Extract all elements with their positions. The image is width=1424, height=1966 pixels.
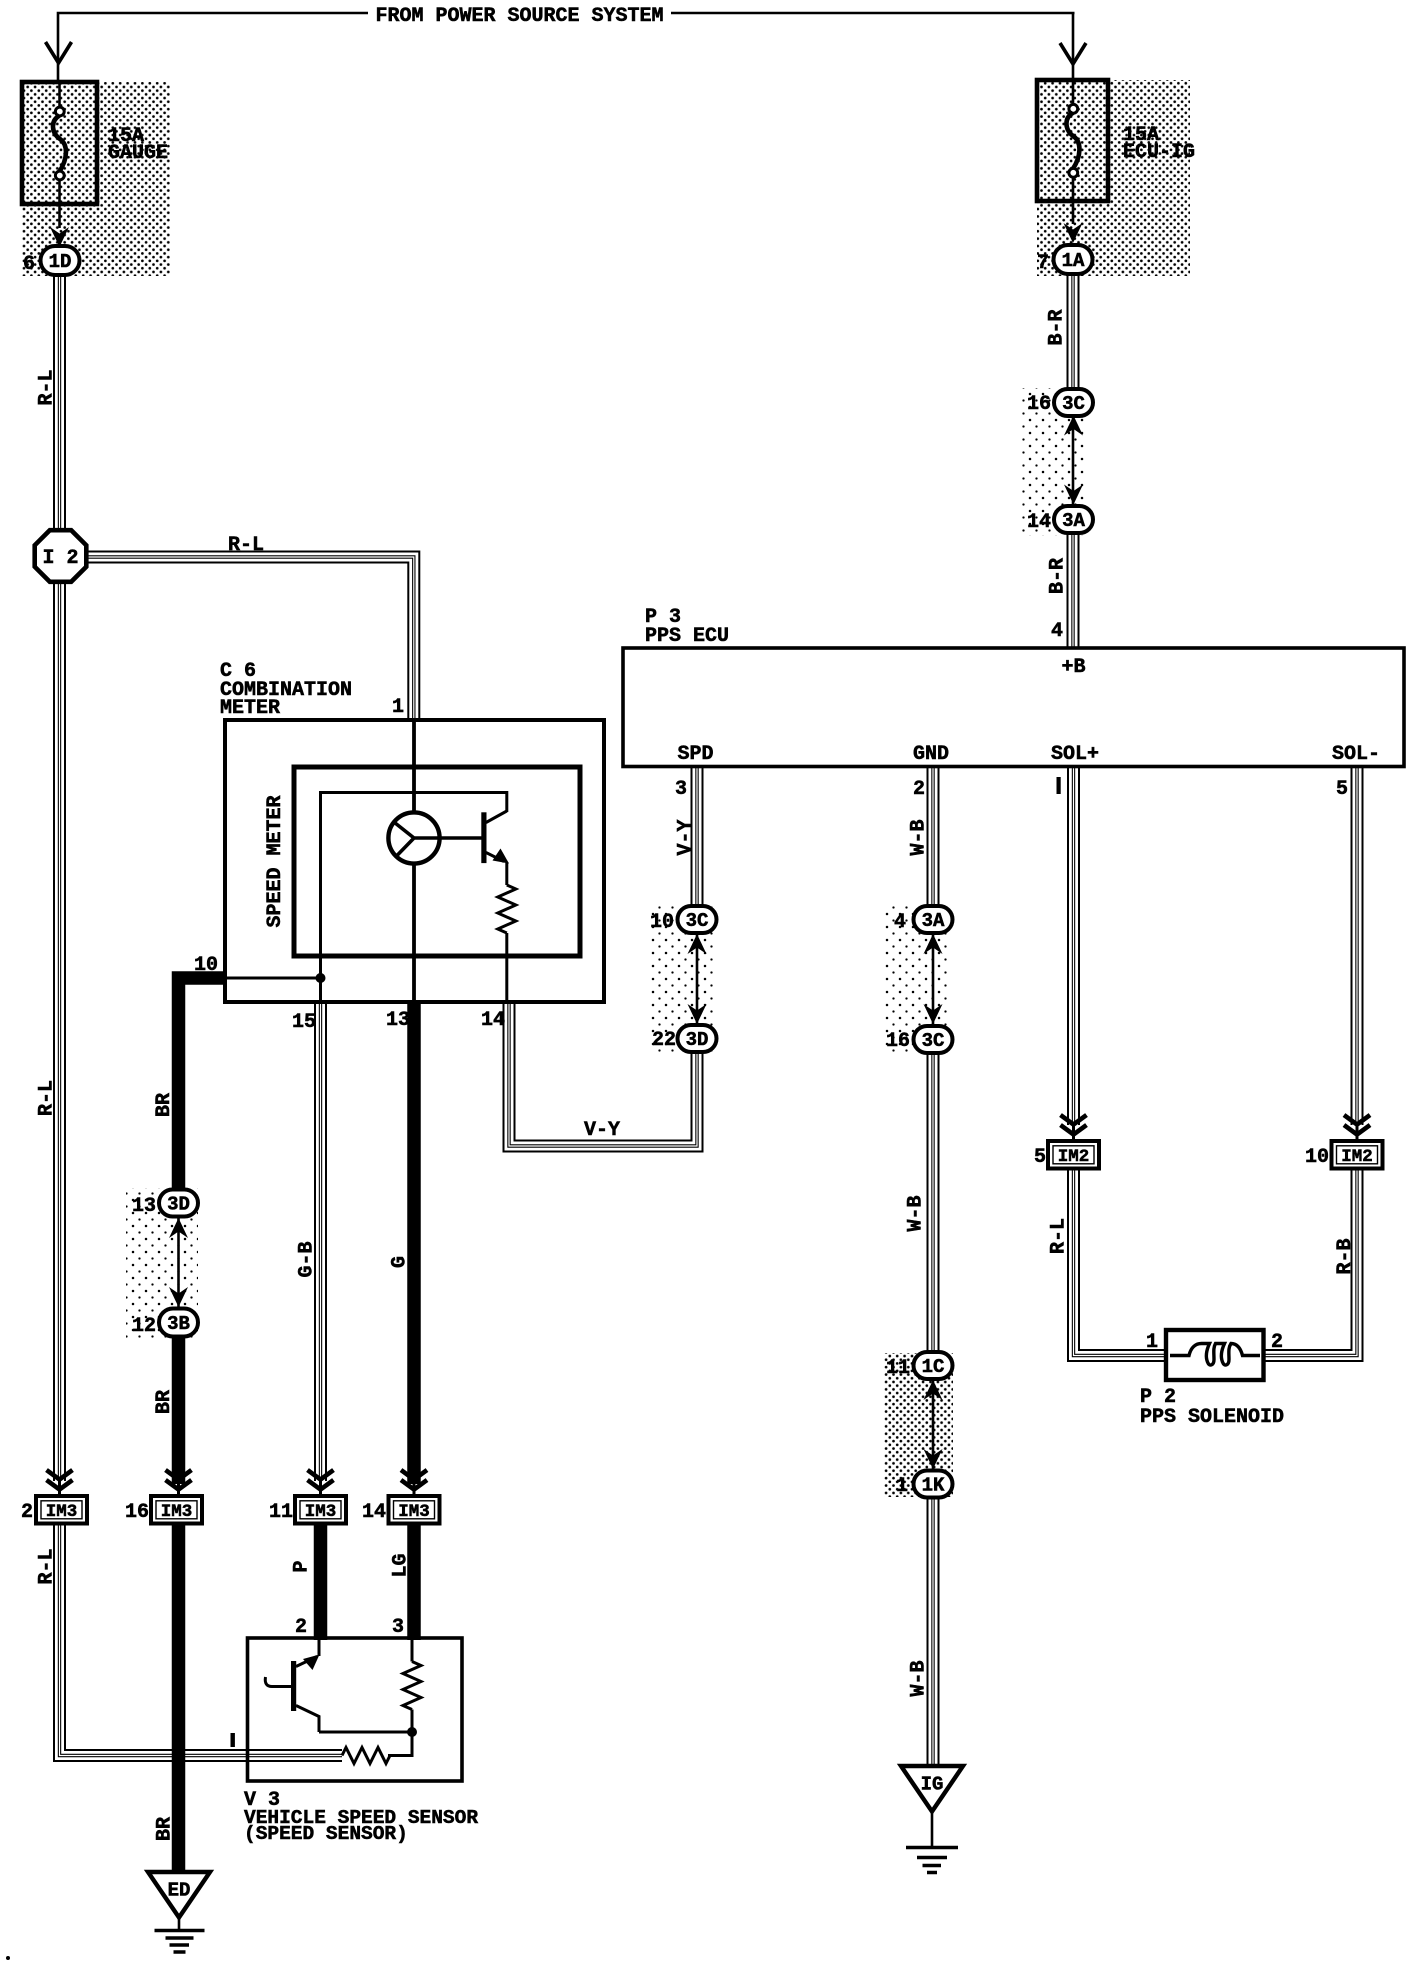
svg-text:3: 3 — [392, 1616, 404, 1639]
connector 3C (GND) — [914, 1026, 953, 1053]
junction dot sensor — [407, 1727, 417, 1737]
connector 3A (GND) — [914, 906, 953, 933]
svg-text:13: 13 — [386, 1009, 410, 1032]
svg-text:W-B: W-B — [908, 819, 931, 855]
connector IM3 pin 11 — [295, 1496, 346, 1524]
svg-text:7: 7 — [1037, 252, 1049, 275]
svg-text:IM3: IM3 — [161, 1502, 193, 1522]
wire P IM3 to speed sensor pin 2 — [314, 1521, 328, 1640]
wire W-B connector 3C to 1C — [927, 1051, 940, 1354]
svg-text:4: 4 — [894, 911, 906, 934]
svg-text:15: 15 — [292, 1011, 316, 1034]
svg-text:IM3: IM3 — [305, 1502, 337, 1522]
svg-text:13: 13 — [132, 1195, 156, 1218]
chevron arrow R-L at IM2 5 — [1061, 1115, 1087, 1125]
wire V-Y connector 3D to meter pin 14 — [509, 1003, 697, 1146]
svg-text:6: 6 — [23, 253, 35, 276]
svg-text:14: 14 — [481, 1009, 505, 1032]
svg-text:ECU-IG: ECU-IG — [1123, 141, 1195, 164]
connector 3D (BR) — [159, 1190, 198, 1217]
svg-text:IM2: IM2 — [1341, 1147, 1373, 1167]
gauge feed line pin 1 — [412, 720, 416, 813]
wire BR connector 3B to IM3 — [172, 1336, 186, 1484]
chevron arrow R-L at IM3 2 — [47, 1470, 73, 1480]
svg-text:V-Y: V-Y — [584, 1119, 620, 1142]
wire R-L IM2 to PPS solenoid pin 1 — [1074, 1168, 1169, 1356]
svg-text:R-L: R-L — [1048, 1218, 1071, 1254]
svg-text:IG: IG — [921, 1774, 944, 1796]
ground ED — [148, 1872, 210, 1918]
arrow up into 3C spd — [688, 934, 707, 954]
svg-text:16: 16 — [1027, 393, 1051, 416]
wire R-L ECU SOL+ down to IM2 — [1067, 766, 1080, 1125]
transistor Q2 in speed sensor — [291, 1661, 296, 1711]
svg-text:22: 22 — [652, 1029, 676, 1052]
arrow into connector 1D — [50, 227, 69, 247]
fuse 15A ECU-IG halftone block — [1037, 80, 1190, 276]
vehicle speed sensor box V3 — [248, 1638, 463, 1781]
wire R-L IM3 to speed sensor pin 1 — [60, 1521, 343, 1756]
wire R-L junction I2 down to IM3 — [53, 581, 66, 1481]
svg-text:R-B: R-B — [1334, 1238, 1357, 1274]
resistor R1 in speed meter — [505, 862, 508, 885]
fuse ECU-IG element — [1072, 80, 1075, 105]
arrow down into 3B br — [169, 1287, 188, 1307]
PPS ECU box P3 — [623, 648, 1404, 767]
svg-text:3A: 3A — [1062, 510, 1085, 532]
arrow down into 1K — [924, 1449, 943, 1469]
svg-text:+B: +B — [1061, 656, 1085, 679]
speedometer gauge symbol — [388, 812, 439, 863]
svg-text:10: 10 — [650, 911, 674, 934]
svg-text:2: 2 — [21, 1501, 33, 1524]
svg-text:3C: 3C — [922, 1030, 945, 1052]
svg-text:R-L: R-L — [36, 1080, 59, 1116]
wire W-B ECU GND to connector 3A — [927, 766, 940, 908]
svg-text:I 2: I 2 — [42, 547, 78, 570]
connector 1D — [41, 246, 80, 275]
wire: FROM POWER SOURCE SYSTEM feed line — [58, 12, 1075, 82]
arrow into fuse GAUGE — [46, 42, 72, 63]
svg-text:SOL-: SOL- — [1332, 743, 1380, 766]
speed meter box — [294, 767, 580, 956]
single lead into IM3 pin2 — [58, 1481, 61, 1497]
connector 3C (B-R) — [1054, 389, 1093, 416]
arrow up into 3C — [1064, 416, 1083, 436]
wire R-L junction I2 to meter pin 1 — [85, 557, 414, 722]
fuse box 15A GAUGE — [22, 82, 97, 204]
svg-text:R-L: R-L — [36, 369, 59, 405]
connector 1K — [914, 1471, 953, 1498]
link 1C-1K (W-B) — [932, 1378, 935, 1471]
wire W-B connector 1K to ground IG — [927, 1496, 940, 1766]
wire V-Y ECU SPD to connector 3C — [691, 766, 704, 908]
wire G-B meter pin 15 to IM3 — [314, 1003, 327, 1481]
connector 3C (SPD) — [678, 906, 717, 933]
svg-text:1: 1 — [1146, 1331, 1158, 1354]
harness band 3C-3A — [1022, 388, 1086, 536]
svg-text:LG: LG — [390, 1553, 413, 1577]
connector 1C — [914, 1352, 953, 1379]
connector 1A — [1054, 245, 1093, 274]
svg-text:3B: 3B — [167, 1313, 190, 1335]
svg-text:SPD: SPD — [677, 743, 713, 766]
svg-text:IM2: IM2 — [1058, 1147, 1090, 1167]
connector IM3 pin 16 — [151, 1496, 202, 1524]
svg-text:METER: METER — [220, 697, 280, 720]
pickup coil lead — [265, 1677, 291, 1687]
chevron arrow R-B at IM2 10 — [1344, 1115, 1370, 1125]
wire R-L fuse 1D to junction I2 — [53, 275, 66, 532]
svg-text:2: 2 — [295, 1616, 307, 1639]
wire R-B ECU SOL- down to IM2 — [1351, 766, 1364, 1125]
link 3C-3A (B-R) — [1072, 414, 1075, 506]
link 3C-3D (V-Y) — [696, 932, 699, 1026]
connector IM3 pin 14 — [389, 1496, 440, 1524]
speed meter inner circuit frame — [321, 793, 507, 1004]
svg-text:PPS SOLENOID: PPS SOLENOID — [1140, 1406, 1284, 1429]
fuse box 15A ECU-IG — [1037, 80, 1108, 201]
svg-text:(SPEED SENSOR): (SPEED SENSOR) — [244, 1823, 408, 1845]
svg-text:R-L: R-L — [228, 534, 264, 557]
wire R-B IM2 to PPS solenoid pin 2 — [1262, 1168, 1357, 1356]
resistor R3 horizontal in sensor — [342, 1748, 390, 1764]
wire B-R connector 3A to ECU pin 4 — [1067, 533, 1080, 649]
connector 3D (SPD) — [678, 1025, 717, 1052]
svg-text:3: 3 — [675, 778, 687, 801]
svg-text:W-B: W-B — [905, 1195, 928, 1231]
svg-text:10: 10 — [194, 954, 218, 977]
fuse 15A GAUGE halftone block — [22, 82, 170, 276]
chevron arrow BR at IM3 16 — [166, 1470, 192, 1480]
harness band 3A-3C (GND) — [884, 905, 950, 1054]
resistor R2 vertical in sensor — [411, 1640, 414, 1662]
link 3D-3B (BR) — [177, 1216, 180, 1309]
PPS solenoid box P2 — [1166, 1330, 1264, 1380]
harness band 3C-3D (SPD) — [650, 905, 716, 1054]
svg-text:BR: BR — [153, 1390, 176, 1414]
wire G meter pin 13 to IM3 — [407, 1003, 421, 1484]
svg-text:IM3: IM3 — [398, 1502, 430, 1522]
svg-text:ED: ED — [168, 1880, 191, 1902]
link 3A-3C (W-B) — [932, 932, 935, 1027]
junction block band J/B 1C-1K — [884, 1353, 953, 1497]
connector 3B (BR) — [159, 1309, 198, 1337]
svg-text:BR: BR — [154, 1817, 177, 1841]
wire B-R connector 1A to 3C — [1067, 274, 1080, 391]
connector IM2 pin 10 — [1332, 1141, 1383, 1169]
svg-text:12: 12 — [132, 1315, 156, 1338]
single lead into IM2 pin10 — [1356, 1125, 1359, 1142]
meter internal node line pin10 — [227, 977, 321, 980]
svg-text:11: 11 — [269, 1501, 293, 1524]
wire LG IM3 to speed sensor pin 3 — [407, 1521, 421, 1640]
svg-text:3A: 3A — [922, 910, 945, 932]
svg-text:B-R: B-R — [1046, 309, 1069, 345]
connector IM3 pin 2 — [36, 1496, 87, 1524]
sensor pin 1 — [231, 1733, 235, 1747]
wire BR meter pin 10 to connector 3D — [179, 978, 225, 1191]
svg-text:16: 16 — [125, 1501, 149, 1524]
arrow up into 3A gnd — [924, 934, 943, 954]
svg-text:2: 2 — [913, 778, 925, 801]
svg-text:3D: 3D — [167, 1194, 190, 1216]
svg-text:FROM POWER SOURCE SYSTEM: FROM POWER SOURCE SYSTEM — [375, 5, 663, 28]
connector 3A (B-R) — [1054, 506, 1093, 533]
arrow up into 3D br — [169, 1218, 188, 1238]
svg-text:5: 5 — [1336, 778, 1348, 801]
fuse GAUGE element — [58, 82, 61, 108]
svg-text:1A: 1A — [1062, 250, 1085, 272]
svg-text:1: 1 — [896, 1475, 908, 1498]
arrow down into 3A — [1064, 485, 1083, 505]
svg-text:1K: 1K — [922, 1475, 945, 1497]
single lead into IM3 pin11 — [319, 1481, 322, 1497]
solenoid coil L1 — [1170, 1344, 1260, 1366]
sensor internal node line — [319, 1731, 412, 1734]
svg-text:11: 11 — [886, 1357, 910, 1380]
svg-text:W-B: W-B — [908, 1660, 931, 1696]
speck — [6, 1956, 10, 1960]
single lead into IM2 pin5 — [1072, 1125, 1075, 1142]
lead into IM3 pin14 — [413, 1484, 416, 1497]
svg-text:GAUGE: GAUGE — [108, 142, 168, 165]
transistor Q1 in speed meter — [481, 812, 486, 863]
harness band 3D-3B (BR) — [126, 1188, 198, 1340]
wire BR IM3 to ground ED — [172, 1521, 186, 1873]
arrow into fuse ECU-IG — [1060, 43, 1086, 64]
svg-text:PPS ECU: PPS ECU — [645, 625, 729, 648]
svg-text:3C: 3C — [1062, 393, 1085, 415]
connector IM2 pin 5 — [1048, 1141, 1099, 1169]
arrow down into 3C gnd — [924, 1004, 943, 1024]
svg-text:1D: 1D — [49, 251, 72, 273]
svg-text:P: P — [291, 1560, 314, 1572]
svg-text:R-L: R-L — [36, 1548, 59, 1584]
svg-text:1: 1 — [392, 696, 404, 719]
svg-text:1C: 1C — [922, 1356, 945, 1378]
sensor pin 2 lead — [318, 1640, 321, 1656]
svg-text:3C: 3C — [686, 910, 709, 932]
junction connector I 2 — [35, 530, 87, 582]
arrow into connector 1A — [1064, 223, 1083, 243]
svg-text:G: G — [389, 1256, 412, 1268]
ground IG — [901, 1766, 963, 1812]
svg-text:BR: BR — [153, 1093, 176, 1117]
arrow up into 1C — [924, 1380, 943, 1400]
svg-text:V-Y: V-Y — [675, 819, 698, 855]
svg-text:14: 14 — [1027, 511, 1051, 534]
lead into IM3 pin16 — [177, 1484, 180, 1497]
combination meter box C6 — [225, 720, 604, 1002]
gauge to pin 13 line — [412, 863, 416, 1003]
chevron arrow G at IM3 14 — [401, 1470, 427, 1480]
svg-text:GND: GND — [913, 743, 949, 766]
svg-text:14: 14 — [362, 1501, 386, 1524]
junction dot pin10/15 — [316, 973, 326, 983]
arrow down into 3D spd — [688, 1004, 707, 1024]
chevron arrow G-B at IM3 11 — [308, 1470, 334, 1480]
svg-text:IM3: IM3 — [46, 1502, 78, 1522]
svg-text:5: 5 — [1034, 1146, 1046, 1169]
svg-text:3D: 3D — [686, 1029, 709, 1051]
svg-text:G-B: G-B — [296, 1241, 319, 1277]
ECU pin 1 — [1057, 777, 1061, 794]
svg-text:16: 16 — [886, 1030, 910, 1053]
svg-text:10: 10 — [1305, 1146, 1329, 1169]
svg-text:B-R: B-R — [1047, 558, 1070, 594]
svg-text:SPEED METER: SPEED METER — [264, 795, 287, 927]
svg-text:2: 2 — [1271, 1331, 1283, 1354]
svg-text:SOL+: SOL+ — [1051, 743, 1099, 766]
svg-text:4: 4 — [1051, 620, 1063, 643]
